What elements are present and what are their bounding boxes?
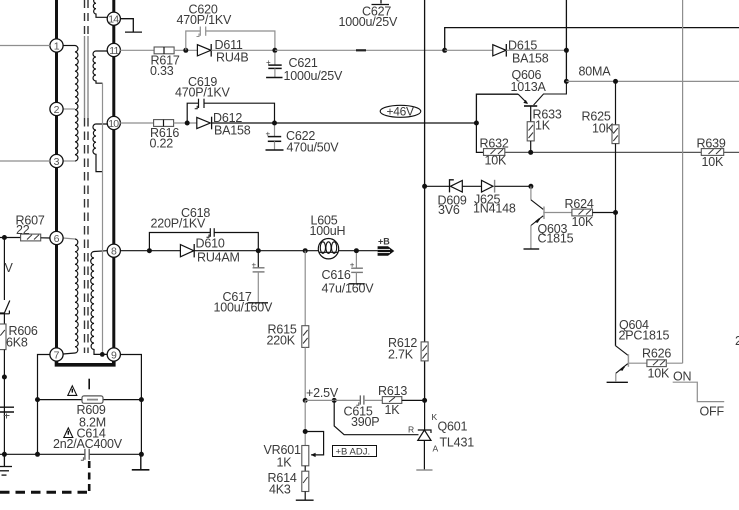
wire Q603 base to R624 [543, 212, 572, 214]
svg-text:1000u/25V: 1000u/25V [284, 69, 344, 83]
resistor R633 [527, 122, 534, 141]
secondary tap wire (gray) [102, 83, 104, 354]
wire R626 to gray vertical [666, 362, 682, 364]
resistor R615 [302, 326, 309, 348]
capacitor C616 [349, 253, 365, 284]
svg-text:0.33: 0.33 [150, 64, 174, 78]
svg-text:14: 14 [108, 14, 119, 26]
wire +2.5V branch to TL431 R [334, 400, 418, 434]
node C619 [185, 121, 190, 126]
svg-text:11: 11 [109, 45, 119, 57]
svg-text:R613: R613 [378, 384, 407, 398]
+25V rail to D615 corner [275, 49, 445, 51]
svg-text:0.22: 0.22 [150, 137, 174, 151]
wire +46V node down to R632 [476, 123, 483, 152]
svg-text:3V6: 3V6 [438, 203, 460, 217]
wire D611 to C621 node [211, 49, 275, 51]
capacitor C619 bypass loop [187, 99, 274, 123]
svg-text:100u/160V: 100u/160V [214, 301, 274, 315]
node R617/C620 [183, 48, 188, 53]
zener D609 (pointing left) [425, 180, 482, 193]
node C616 [354, 248, 359, 253]
transistor Q606 (PNP 2SA1013) [518, 83, 566, 121]
+B ADJ. label box [333, 446, 377, 458]
wire pin1 to left edge [0, 45, 50, 47]
svg-text:+B: +B [378, 237, 390, 247]
loop right wire from pin 9 [120, 355, 141, 455]
transformer bottom bar [57, 355, 114, 365]
secondary winding pin 11 [93, 51, 107, 83]
wire +2.5V row [305, 399, 360, 401]
svg-text:10K: 10K [572, 215, 595, 229]
wire R615 [304, 251, 306, 326]
resistor R632 [484, 149, 505, 156]
wire D612 to node [212, 122, 275, 124]
chassis ground bottom left [0, 454, 12, 475]
nodes bottom wire [2, 452, 7, 457]
inductor L605 [318, 239, 338, 259]
svg-text:2.7K: 2.7K [388, 348, 414, 362]
pin 10 [107, 116, 120, 129]
capacitor C618 bypass loop [149, 228, 258, 251]
node VR601 top [303, 429, 308, 434]
wire D615 to vertical [506, 49, 566, 51]
warning triangle C614 [64, 428, 73, 438]
transistor Q604 (NPN 2PC1815, mirrored) [607, 346, 629, 383]
wire pin10 to R616 [120, 122, 154, 124]
wire R606 down [3, 350, 5, 455]
80MA wire [566, 80, 739, 82]
node: tap joins pin 9 [100, 352, 105, 357]
svg-text:R: R [408, 425, 414, 435]
svg-text:470P/1KV: 470P/1KV [175, 86, 231, 100]
wire R607 row [0, 237, 21, 239]
svg-text:R624: R624 [565, 197, 594, 211]
node Q603 collector [528, 184, 533, 189]
+2.5V node row [303, 398, 308, 403]
wire D610 to L605 [194, 250, 318, 252]
svg-text:390P: 390P [351, 415, 379, 429]
node +46V end [474, 121, 479, 126]
svg-text:10K: 10K [485, 154, 508, 168]
svg-text:V: V [5, 261, 14, 275]
node C617 [256, 248, 261, 253]
+46V oval label [380, 104, 421, 118]
resistor R607 [21, 234, 41, 241]
svg-text:22: 22 [16, 223, 30, 237]
svg-text:100uH: 100uH [310, 224, 346, 238]
diode J625 [482, 180, 531, 193]
svg-text:2: 2 [735, 334, 739, 348]
overlap tick on rail [356, 49, 366, 51]
resistor R613 [382, 397, 402, 404]
svg-text:220P/1KV: 220P/1KV [151, 217, 207, 231]
svg-text:RU4B: RU4B [216, 51, 249, 65]
svg-text:1K: 1K [385, 403, 401, 417]
node R624/R625 [613, 210, 618, 215]
wire node to D615 [445, 49, 493, 51]
svg-text:470P/1KV: 470P/1KV [177, 13, 233, 27]
secondary winding above pin 14 [93, 0, 107, 17]
pin 3 [50, 154, 63, 167]
resistor R616 [154, 120, 174, 127]
svg-text:Q601: Q601 [438, 420, 468, 434]
rail R632 to R639 to right edge [505, 151, 739, 153]
svg-text:10: 10 [108, 118, 119, 130]
zener diode (clipped) [0, 301, 10, 325]
svg-text:TL431: TL431 [440, 436, 475, 450]
resistor R624 [572, 209, 593, 216]
resistor R617 [154, 47, 174, 54]
svg-text:470u/50V: 470u/50V [287, 141, 340, 155]
diode D615 [493, 44, 507, 57]
bottom wire with C614 [0, 453, 85, 455]
svg-text:R632: R632 [480, 137, 509, 151]
potentiometer VR601 [302, 446, 309, 466]
primary winding stubs [63, 46, 75, 355]
svg-text:2PC1815: 2PC1815 [619, 329, 670, 343]
resistor R614 [302, 471, 309, 491]
svg-text:C616: C616 [322, 268, 351, 282]
ON/OFF waveform [673, 382, 725, 401]
svg-text:1000u/25V: 1000u/25V [339, 15, 399, 29]
svg-text:BA158: BA158 [214, 124, 251, 138]
warning triangle [68, 386, 77, 396]
resistor R626 [647, 360, 666, 367]
svg-text:1K: 1K [277, 456, 293, 470]
wire R607 to pin 6 [41, 237, 51, 239]
floating tick above R609 [88, 379, 90, 390]
svg-text:OFF: OFF [700, 405, 725, 419]
ground below R614 [304, 492, 306, 501]
svg-text:80MA: 80MA [579, 65, 612, 79]
svg-text:1K: 1K [535, 119, 551, 133]
pin 2 [50, 102, 63, 115]
pin 6 [50, 231, 63, 244]
pin 1 [50, 39, 63, 52]
capacitor C621 [266, 53, 283, 78]
ground right of C614 [132, 454, 150, 470]
R609 row wire [38, 399, 142, 401]
svg-text:C1815: C1815 [538, 232, 574, 246]
wire L605 to +B arrow [339, 250, 378, 252]
node R615 [303, 248, 308, 253]
pin 8 [107, 244, 120, 257]
node D615 branch [442, 48, 447, 53]
wire VR601 to R614 [304, 466, 306, 471]
capacitor C614 [81, 449, 89, 461]
wire pin11 to R617 [120, 49, 154, 51]
wire R633 to rail [530, 141, 532, 153]
diode D612 [197, 117, 212, 130]
capacitor C627 (clipped at top) [372, 0, 390, 5]
wire R616 to D612 [174, 122, 197, 124]
wire R617 to D611 [174, 49, 197, 51]
capacitor on left column [0, 407, 14, 418]
pin 14 [107, 12, 120, 25]
transistor Q603 (NPN C1815, mirrored) [524, 186, 545, 249]
capacitor C615 [356, 395, 364, 405]
wire up-right to edge (top right rail) [445, 28, 739, 51]
transformer T601 right secondary bus [112, 0, 115, 356]
primary winding pins 6-7 [75, 239, 78, 353]
pin 9 [107, 348, 120, 361]
svg-text:+2.5V: +2.5V [306, 386, 339, 400]
wire R615 to +2.5V node [304, 347, 306, 400]
node R625 top [613, 79, 618, 84]
wire R625 down through rail to R624 node [615, 144, 617, 213]
svg-text:BA158: BA158 [512, 52, 549, 66]
node D615 out [564, 48, 569, 53]
resistor R639 [701, 149, 723, 156]
loop left wire from pin 7 [38, 355, 51, 455]
diode D610 [180, 244, 194, 257]
transformer T601 left primary bus [55, 0, 58, 355]
svg-text:1N4148: 1N4148 [473, 202, 516, 216]
+B arrow out [378, 237, 395, 256]
svg-text:+: + [266, 58, 271, 67]
svg-text:ON: ON [673, 370, 692, 384]
wire C615 to R613 [364, 399, 382, 401]
svg-text:R639: R639 [697, 137, 726, 151]
resistor R612 on main vertical [421, 342, 428, 361]
svg-text:A: A [433, 444, 439, 454]
diode D611 [197, 44, 211, 57]
gray vertical right rail [682, 0, 684, 363]
node C618 left [147, 248, 152, 253]
node D609 [422, 184, 427, 189]
wire Q604 base to R626 [628, 362, 647, 364]
node left [2, 375, 7, 380]
wiper loop [305, 432, 323, 455]
svg-text:+46V: +46V [387, 104, 414, 118]
node left column top [2, 235, 7, 240]
transformer core dashed lines [85, 0, 89, 353]
svg-text:10K: 10K [592, 122, 615, 136]
TL431 Q601 [416, 400, 432, 470]
svg-text:C621: C621 [289, 56, 318, 70]
resistor R625 [615, 81, 617, 124]
wire down to Q604 collector [615, 213, 617, 346]
vertical wire from top edge through D615 node to Q606 collector node [565, 0, 567, 81]
node C621 [272, 48, 277, 53]
wire R613 to K node [402, 399, 425, 401]
secondary winding pin 10 [93, 124, 107, 172]
svg-text:+B ADJ.: +B ADJ. [336, 446, 371, 457]
svg-text:2n2/AC400V: 2n2/AC400V [53, 437, 123, 451]
svg-text:R626: R626 [642, 347, 671, 361]
pin 7 [50, 348, 63, 361]
wire down from +2.5V [304, 400, 306, 445]
node R633/R632 [528, 150, 533, 155]
svg-text:47u/160V: 47u/160V [322, 282, 375, 296]
svg-text:6K8: 6K8 [6, 336, 28, 350]
primary winding pins 1-3 [75, 46, 78, 162]
secondary winding pins 8-9 [91, 251, 107, 355]
wire +46V node up to Q606 emitter [476, 94, 518, 123]
node C622 [272, 121, 277, 126]
wire pin3 to left edge [0, 160, 50, 162]
wire R624 to node [593, 212, 616, 214]
svg-text:4K3: 4K3 [269, 483, 291, 497]
svg-text:D610: D610 [196, 237, 225, 251]
left column vertical [3, 238, 5, 301]
pin 11 [107, 43, 120, 56]
wire pin8 to D610 [120, 250, 180, 252]
capacitor C617 [248, 253, 268, 303]
capacitor C620 bypass loop [186, 27, 275, 51]
svg-text:10K: 10K [648, 367, 671, 381]
ground at pin 14 [120, 19, 142, 32]
svg-text:+: + [252, 260, 257, 269]
+46V rail [275, 122, 477, 124]
main vertical wire x=424.6 [424, 0, 426, 400]
svg-text:220K: 220K [267, 334, 296, 348]
svg-text:+: + [266, 130, 271, 139]
svg-text:RU4AM: RU4AM [197, 251, 240, 265]
nodes R609 [35, 397, 40, 402]
resistor R609 [82, 396, 103, 403]
svg-text:1013A: 1013A [511, 80, 547, 94]
svg-text:10K: 10K [702, 155, 725, 169]
node Q606 collector / 80MA [564, 79, 569, 84]
isolation barrier dashed [0, 461, 90, 492]
resistor R606 (clipped) [0, 324, 6, 350]
capacitor C622 [266, 126, 284, 151]
